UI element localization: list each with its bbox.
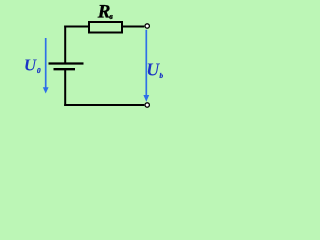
svg-text:U: U [146,59,160,79]
battery U0: short (negative) plate [54,68,76,70]
arrow: U0 voltage arrow (downward, left of battery) [45,38,47,89]
wire: bottom horizontal from left corner to bottom terminal [64,104,144,106]
battery U0: long (positive) plate [49,62,84,64]
wire: left vertical upper segment (corner to battery top plate) [64,26,66,64]
svg-text:в: в [109,12,113,21]
svg-text:U: U [24,56,37,75]
wire: top horizontal from left corner to right terminal [64,26,144,28]
svg-text:b: b [159,71,163,80]
svg-text:0: 0 [37,66,41,75]
resistor Rв (box on top wire) [89,22,122,33]
arrow: Ub voltage arrow (downward, between output terminals) [145,30,147,96]
wire: left vertical lower segment (battery bottom plate to bottom corner) [64,69,66,106]
node: bottom output terminal (open circle) [145,103,149,107]
node: top output terminal (open circle) [145,24,149,28]
